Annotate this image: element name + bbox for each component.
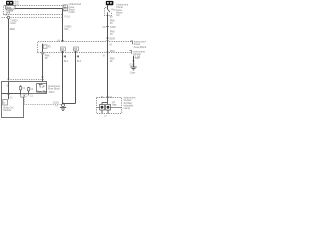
underhood junction block box bbox=[2, 82, 47, 94]
cluster internal bus bbox=[102, 98, 108, 105]
tick left feed entering junction block bbox=[7, 79, 9, 81]
label: battery positive bbox=[15, 1, 20, 6]
svg-text:BLK: BLK bbox=[135, 58, 140, 60]
right case ground wire bbox=[133, 56, 135, 67]
cluster left pin bbox=[97, 107, 100, 109]
underhood fuse block bus bar (black box, top left) bbox=[6, 1, 14, 5]
harness dashed boundary bottom left bbox=[11, 79, 45, 81]
wire: left battery feed down bbox=[8, 19, 10, 81]
grommet node on left feed bbox=[7, 16, 10, 19]
tick below fuse 1 bbox=[20, 94, 22, 96]
maxifuse connector box bbox=[6, 6, 16, 10]
connector boxes C1 C2 on fuse block edge bbox=[63, 5, 68, 11]
fuse 1 in junction block bbox=[19, 85, 26, 93]
tick ground B at boundary bbox=[74, 52, 76, 54]
BCM sub box bbox=[3, 100, 8, 106]
tick B+ pin into BCM bbox=[8, 94, 10, 96]
IP fuse block dashed outline bbox=[38, 42, 132, 53]
cluster lamp drops bbox=[102, 110, 108, 114]
indicator lamp 2 bbox=[106, 105, 111, 111]
svg-text:P100: P100 bbox=[65, 16, 71, 19]
svg-text:Case: Case bbox=[130, 72, 136, 74]
wire: ground B down bbox=[75, 51, 77, 104]
label: underhood fuse block name bbox=[69, 3, 82, 14]
label: right lower boundary bbox=[133, 50, 145, 58]
ground G200 symbol bbox=[130, 67, 136, 70]
svg-text:Lamp: Lamp bbox=[124, 107, 131, 110]
svg-text:Fuse Block: Fuse Block bbox=[48, 87, 61, 90]
wire: B+ into BCM bbox=[8, 82, 10, 100]
svg-text:Micro: Micro bbox=[49, 91, 55, 94]
underhood fuse block dashed outline bbox=[4, 6, 63, 15]
cluster right pin bbox=[111, 107, 122, 109]
label: wire PNK ign bbox=[110, 20, 115, 26]
ignition switch symbol bbox=[107, 5, 116, 13]
svg-text:BLK: BLK bbox=[77, 61, 82, 63]
label: instrument cluster name bbox=[124, 97, 136, 110]
instrument cluster dashed box bbox=[97, 98, 122, 114]
engine harness dashed boundary left stub bbox=[2, 17, 8, 19]
svg-text:Bag: Bag bbox=[112, 105, 117, 107]
svg-text:RED: RED bbox=[10, 28, 15, 31]
svg-text:Air: Air bbox=[112, 101, 115, 104]
wire: battery box to connector bbox=[8, 4, 10, 7]
svg-text:N LP: N LP bbox=[40, 86, 46, 88]
svg-text:S299: S299 bbox=[109, 37, 115, 40]
label: G103 bbox=[53, 102, 60, 108]
tick ignition feed at IP boundary bbox=[106, 40, 108, 42]
label right of junction block bbox=[48, 85, 61, 91]
fuse F5 in IP block bbox=[43, 44, 52, 84]
connector box ground B bbox=[74, 47, 79, 51]
terminal tick at IP boundary (center feed) bbox=[57, 39, 64, 42]
label: wire PNK 39 lower bbox=[110, 58, 115, 64]
splice dot right ground bbox=[133, 60, 135, 62]
svg-text:Horn Rly: Horn Rly bbox=[37, 91, 47, 94]
label inside cluster bbox=[112, 101, 117, 107]
svg-text:C200: C200 bbox=[110, 26, 116, 29]
label: fusible link rows bbox=[6, 10, 14, 14]
label: wire RED 2 left feed bbox=[10, 20, 17, 26]
junction dot ground bus bbox=[62, 103, 64, 105]
connector mark right end bottom bbox=[130, 51, 132, 54]
label: ignition switch name bbox=[116, 4, 128, 17]
label: fuse wire bbox=[45, 55, 50, 61]
dotted ground link path bbox=[25, 95, 62, 104]
splice S299 bbox=[107, 37, 116, 40]
ground G103 symbol bbox=[60, 104, 66, 111]
connector box ground wire A bbox=[61, 47, 66, 51]
engine harness dashed boundary bbox=[11, 17, 63, 19]
svg-text:C100: C100 bbox=[69, 11, 76, 14]
arrow label ground B bbox=[76, 55, 78, 58]
connector tick C200 bbox=[102, 26, 116, 29]
label below junction block bbox=[29, 94, 34, 98]
svg-text:PNK: PNK bbox=[110, 50, 115, 53]
terminal blob fuse wire at lower boundary bbox=[41, 52, 44, 55]
svg-text:1040: 1040 bbox=[10, 22, 16, 25]
relay sub box bbox=[37, 84, 47, 94]
connector box on BCM right edge bbox=[21, 94, 28, 98]
label: IP fuse block name bbox=[134, 41, 147, 49]
ignition switch dashed box bbox=[105, 8, 112, 16]
tick cluster entry bbox=[106, 96, 108, 98]
fuse 2 in junction block bbox=[27, 87, 33, 94]
svg-text:BLK: BLK bbox=[64, 61, 69, 63]
tick ignition feed at lower boundary bbox=[106, 52, 108, 54]
ignition fuse block black box (top right) bbox=[106, 1, 114, 5]
svg-text:Fuse Block: Fuse Block bbox=[134, 46, 147, 49]
connector mark right end top bbox=[131, 41, 133, 44]
body control module box bbox=[2, 94, 24, 118]
label: wire RED center feed bbox=[64, 26, 71, 32]
indicator lamp 1 bbox=[100, 105, 105, 111]
wire: ground A down bbox=[62, 51, 64, 104]
label: wire PNK ign 2 bbox=[110, 30, 115, 36]
wire: bus feed horizontal bbox=[15, 8, 63, 10]
ground bus joining wire bbox=[63, 103, 76, 105]
wire: center feed drop bbox=[62, 9, 64, 42]
wire: ignition feed down bbox=[107, 13, 109, 97]
label: BCM name bbox=[3, 107, 13, 113]
svg-text:Module: Module bbox=[3, 109, 12, 112]
svg-text:Maxi: Maxi bbox=[6, 7, 11, 9]
svg-text:G200: G200 bbox=[129, 64, 135, 66]
terminal tick fuse wire near bottom bbox=[41, 77, 43, 79]
arrow label ground A bbox=[63, 55, 65, 58]
labels cluster entry bbox=[101, 96, 113, 99]
tick ground A at boundary bbox=[61, 52, 63, 54]
svg-text:342: 342 bbox=[64, 28, 69, 31]
